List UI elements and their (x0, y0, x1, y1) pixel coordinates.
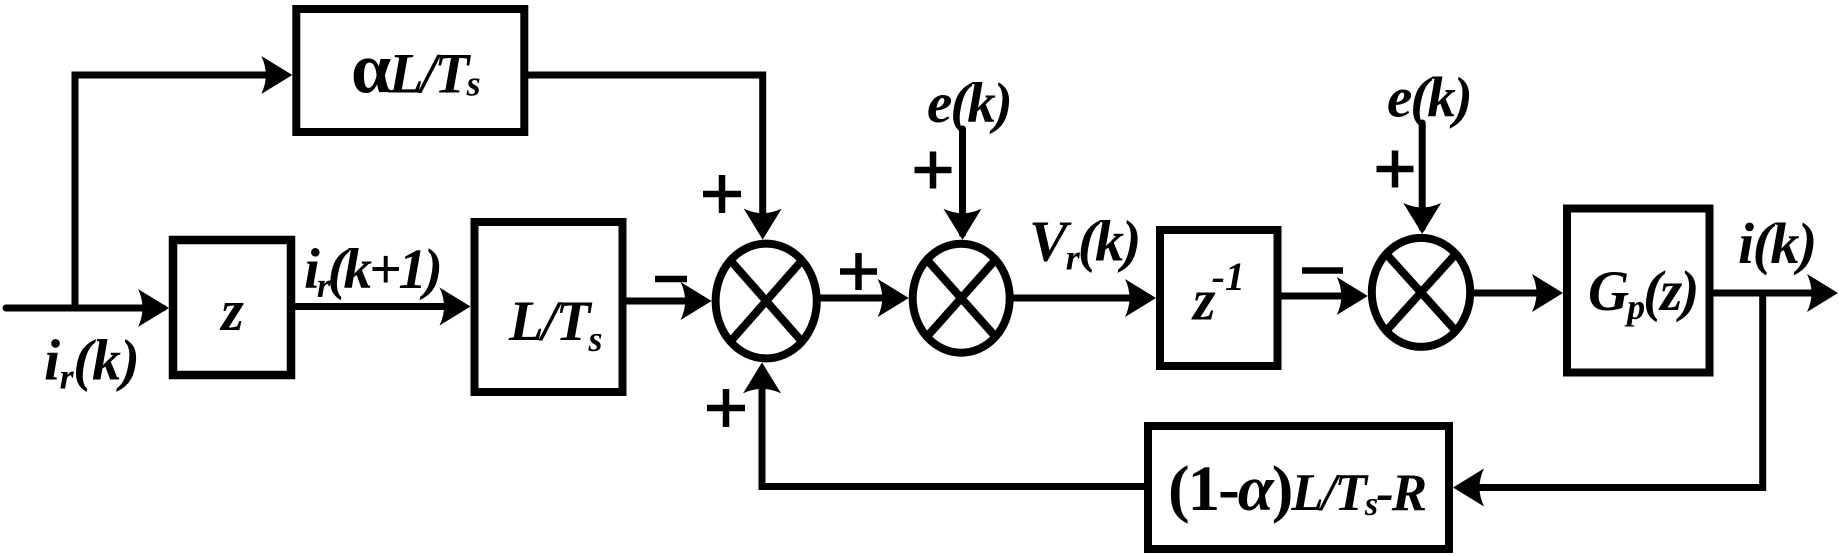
sign plus above S1 (703, 175, 741, 213)
wire z^-1 to S3 (1278, 293, 1363, 300)
svg-text:Vr(k): Vr(k) (1029, 209, 1139, 278)
sign plus beside second e(k) arrow (1377, 151, 1414, 188)
block L/Ts (475, 222, 623, 392)
arrowhead into feedback block right side (1453, 469, 1484, 507)
arrowhead into S2 left (878, 279, 909, 317)
block Gp(z) (1567, 209, 1710, 373)
wire output i(k) (1710, 290, 1833, 297)
wire feedback from output down to (1-a)L/Ts-R (1459, 293, 1763, 488)
sign plus between S1 and S2 (840, 253, 877, 290)
arrowhead into block alphaL/Ts (261, 56, 292, 94)
wire z to L/Ts (291, 303, 465, 310)
wire e(k) down into S3 (1419, 123, 1426, 228)
sign plus below S1 (707, 389, 745, 427)
sign minus before S3 (1302, 267, 1343, 274)
arrowhead into block L/Ts (440, 288, 471, 326)
arrowhead into S3 top (1403, 203, 1441, 234)
arrowhead into S3 left (1337, 277, 1368, 315)
summing junction S2 (913, 244, 1010, 353)
summing junction S1 (716, 244, 817, 359)
arrowhead into block Gp(z) (1532, 274, 1563, 312)
svg-text:Gp(z): Gp(z) (1588, 260, 1697, 327)
arrowhead into S1 bottom (743, 362, 781, 393)
svg-text:(1-α)L/Ts-R: (1-α)L/Ts-R (1168, 453, 1426, 525)
summing junction S3 (1372, 238, 1470, 347)
arrowhead into S2 top (944, 209, 982, 240)
wire from alphaL/Ts to summing junction S1 top (524, 75, 762, 234)
sign minus before S1 (655, 276, 687, 283)
block z^-1 (1160, 230, 1278, 366)
svg-text:i(k): i(k) (1738, 211, 1816, 276)
wire feedback from block to S1 bottom (762, 368, 1148, 487)
arrowhead into S1 top (744, 209, 782, 240)
wire S3 to Gp(z) (1473, 290, 1557, 297)
sign plus beside first e(k) arrow (915, 152, 952, 189)
svg-text:z: z (219, 278, 244, 343)
wire L/Ts to S1 (623, 298, 706, 305)
block alphaL/Ts (296, 9, 524, 132)
arrowhead into block z (138, 289, 169, 327)
block z (173, 240, 291, 375)
svg-text:e(k): e(k) (927, 72, 1011, 135)
wire branch up-left to alpha block (75, 75, 287, 311)
wire S2 to z^-1 (1008, 295, 1150, 302)
arrowhead output (1807, 274, 1838, 312)
svg-text:e(k): e(k) (1387, 67, 1471, 130)
svg-text:L/Ts: L/Ts (508, 290, 601, 359)
wire S1 to S2 (818, 295, 903, 302)
wire e(k) down into S2 (959, 129, 966, 234)
block (1-alpha)L/Ts-R (1148, 426, 1449, 549)
svg-text:ir(k): ir(k) (44, 328, 139, 397)
arrowhead into block z^-1 (1125, 279, 1156, 317)
wire input i_r(k) horizontal (6, 305, 163, 312)
arrowhead into S1 left (681, 282, 712, 320)
